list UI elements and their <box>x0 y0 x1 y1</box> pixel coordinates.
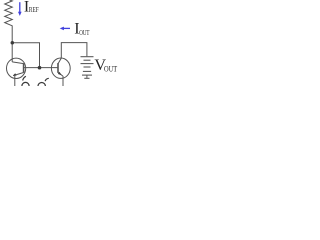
label Q1 (cut off at bottom edge) <box>22 76 29 89</box>
battery plate 4 short <box>84 66 91 68</box>
wire: Q2 emitter lead <box>62 76 64 86</box>
svg-text:REF: REF <box>29 5 39 14</box>
transistor Q2 (NPN, base at left) <box>51 58 70 78</box>
label IOUT <box>74 21 89 38</box>
wire: battery to ground stub <box>86 75 88 78</box>
wire: Q1 emitter lead <box>14 75 16 86</box>
IREF current arrow (blue) <box>18 2 22 16</box>
battery plate 2 short <box>84 59 91 61</box>
ground <box>84 77 89 79</box>
label Q2 (cut off at bottom edge) <box>38 78 49 90</box>
wire: Q2 collector up, right rail to battery <box>61 43 87 59</box>
battery V plate 1 long <box>81 56 94 58</box>
wire: base rail Q1-Q2 <box>24 67 59 69</box>
battery plate 3 long <box>81 63 94 65</box>
svg-text:OUT: OUT <box>79 28 89 37</box>
IOUT current arrow (blue) <box>60 27 70 31</box>
battery plate 6 long <box>82 74 92 76</box>
resistor R (sets IREF, cut off at top edge) <box>5 0 13 43</box>
battery plate 5 short <box>83 70 91 72</box>
node A: junction dot top-left <box>11 41 15 45</box>
wire: top rail from node to base column <box>12 43 39 68</box>
svg-text:OUT: OUT <box>104 65 117 74</box>
label VOUT <box>94 56 117 74</box>
wire: left rail down to Q1 collector <box>11 43 13 62</box>
node B: base junction dot <box>38 66 42 70</box>
label IREF <box>24 0 39 16</box>
transistor Q1 (NPN, base at right) <box>7 58 26 78</box>
